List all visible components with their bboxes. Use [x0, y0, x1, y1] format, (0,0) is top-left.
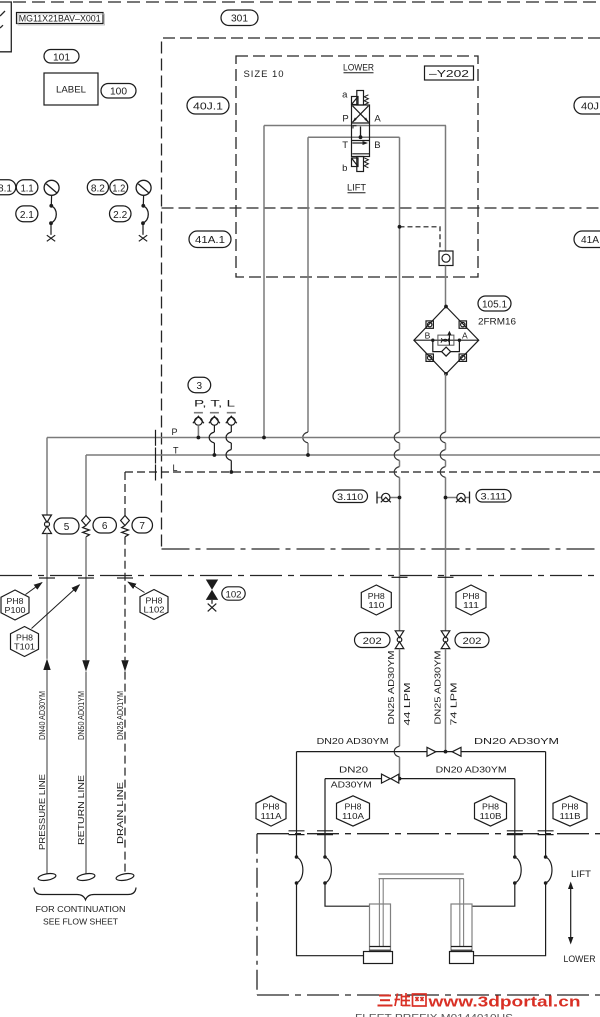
svg-text:1.1: 1.1	[21, 183, 34, 194]
double ticks 110B	[507, 831, 523, 835]
svg-text:PRESSURE LINE: PRESSURE LINE	[37, 774, 47, 850]
svg-text:a: a	[342, 90, 348, 101]
svg-text:301: 301	[231, 14, 248, 25]
machine boundary left vertical	[256, 834, 258, 995]
corner symbol box (cut off at left edge)	[0, 2, 11, 52]
svg-text:FLEET PREFIX M0144010US: FLEET PREFIX M0144010US	[355, 1012, 513, 1017]
svg-text:DN25 AD30YM: DN25 AD30YM	[432, 651, 442, 725]
crossing tick L	[117, 577, 133, 579]
LIFT label	[347, 183, 366, 194]
wire T top horizontal	[308, 136, 400, 138]
pipe end ellipse pressure	[38, 872, 57, 881]
svg-text:40J: 40J	[581, 101, 599, 112]
pipe 110A to left cylinder rod side	[325, 883, 370, 906]
LOWER label	[343, 63, 374, 74]
svg-text:41A: 41A	[581, 235, 599, 246]
line 110B vertical	[514, 779, 516, 857]
wire B hops over P T L	[394, 432, 399, 478]
drain line lower dashed	[124, 672, 126, 874]
coupling T	[209, 413, 220, 457]
svg-text:2.2: 2.2	[113, 210, 127, 221]
svg-text:44 LPM: 44 LPM	[402, 683, 412, 726]
oval 2.1	[16, 206, 38, 222]
svg-text:DN20 AD30YM: DN20 AD30YM	[474, 736, 559, 746]
svg-text:101: 101	[53, 52, 70, 63]
svg-text:DN25 AD01YM: DN25 AD01YM	[115, 691, 125, 740]
machine boundary bottom dash-dot	[257, 994, 600, 996]
junction dot wire P	[262, 436, 266, 440]
right cylinder piston	[451, 947, 472, 951]
svg-text:b: b	[342, 163, 347, 174]
svg-text:P100: P100	[5, 605, 26, 615]
oval 5	[54, 518, 79, 534]
valve body -Y202	[352, 105, 370, 157]
drain line below valve 7 dashed	[124, 537, 126, 660]
mid dashed line	[162, 207, 600, 209]
LABEL box	[44, 73, 98, 105]
hexagon PH8 110	[361, 585, 391, 615]
P line corner vertical	[46, 438, 48, 515]
svg-text:40J.1: 40J.1	[193, 101, 224, 112]
svg-text:B: B	[425, 331, 431, 341]
oval 1.1	[16, 180, 38, 195]
oval 2.2	[110, 206, 132, 222]
valve lower cell arrows	[352, 141, 369, 154]
svg-text:74 LPM: 74 LPM	[448, 683, 458, 726]
svg-text:L: L	[173, 463, 178, 473]
right cylinder base cap	[450, 952, 474, 964]
callout arrow T101	[32, 585, 80, 629]
test point 3.111	[444, 492, 470, 504]
double ticks 111B	[538, 831, 554, 835]
line 111A vertical	[296, 752, 298, 857]
solenoid tag -Y202	[425, 66, 474, 80]
svg-text:P: P	[342, 113, 348, 124]
boundary tick on P	[155, 430, 157, 446]
wire A lower segment	[445, 649, 447, 752]
oval 41A (clipped right)	[574, 231, 600, 248]
outer enclosure bottom dash-dot	[162, 548, 600, 550]
watermark chinese char 3	[413, 994, 427, 1006]
svg-text:AD30YM: AD30YM	[331, 779, 372, 789]
hexagon PH8 111B	[553, 796, 587, 826]
left cylinder rod	[379, 879, 383, 947]
svg-text:6: 6	[102, 521, 108, 532]
oval 3.110	[333, 490, 368, 503]
spring b (bottom right)	[364, 158, 368, 168]
svg-text:DN40 AD30YM: DN40 AD30YM	[37, 691, 47, 740]
svg-text:3: 3	[197, 381, 203, 392]
oval 8.1 (clipped)	[0, 180, 16, 195]
valve center cell line and dot	[353, 126, 362, 139]
hexagon PH8 T101	[11, 627, 39, 657]
crossing tick T	[78, 577, 94, 579]
upper branch cones	[427, 747, 461, 756]
wire B lower segment	[399, 649, 401, 747]
gauge circle 2	[136, 180, 151, 195]
pipe 110B to right cylinder rod side	[472, 883, 515, 906]
callout arrow P100	[26, 583, 43, 595]
svg-text:41A.1: 41A.1	[195, 235, 225, 246]
double ticks 110A	[317, 831, 333, 835]
wire T to T-line	[307, 443, 309, 455]
oval 40J (clipped right)	[574, 97, 600, 114]
left cylinder piston	[370, 947, 391, 951]
oval 102	[222, 587, 245, 600]
svg-text:T101: T101	[14, 642, 35, 652]
wire B to lower branch	[399, 757, 401, 779]
upper branch line 111	[297, 751, 546, 753]
svg-text:SIZE 10: SIZE 10	[244, 69, 284, 80]
svg-text:3.110: 3.110	[337, 492, 363, 502]
oval 1.2	[110, 180, 128, 195]
oval 105.1	[478, 296, 511, 311]
rod header bar	[379, 874, 464, 879]
flow arrow return line down	[82, 660, 89, 671]
inner dashed valve box SIZE 10	[236, 56, 478, 277]
gauge circle 1	[44, 180, 59, 195]
flow arrow pressure line up	[43, 659, 50, 670]
L line corner vertical dashed	[124, 472, 126, 516]
pipe 111B to right cylinder base	[474, 883, 546, 956]
test point 3.110	[377, 492, 401, 504]
svg-text:110: 110	[368, 600, 384, 610]
oval 41A.1	[189, 231, 231, 248]
svg-text:1.2: 1.2	[112, 183, 125, 194]
top dashed line	[13, 1, 600, 3]
wire P top horizontal	[264, 125, 446, 127]
double ticks 111A	[289, 831, 305, 835]
svg-text:LOWER: LOWER	[343, 63, 374, 74]
continuation brace	[34, 888, 136, 900]
svg-text:SEE FLOW SHEET: SEE FLOW SHEET	[43, 917, 118, 927]
flow arrow drain line down	[121, 660, 128, 671]
switch contact 1	[47, 195, 56, 241]
flow regulator 105.1 diamond	[414, 307, 479, 374]
lower branch line 110	[325, 778, 515, 780]
svg-text:8.1: 8.1	[0, 183, 12, 194]
line 110A vertical	[324, 779, 326, 857]
svg-text:–Y202: –Y202	[429, 69, 470, 80]
spring a (top right)	[364, 95, 368, 105]
compensator square with circle	[439, 251, 453, 266]
machine boundary dash-dot	[257, 833, 600, 835]
svg-text:DN20 AD30YM: DN20 AD30YM	[317, 736, 389, 746]
return line below valve 6	[85, 537, 87, 660]
svg-text:P, T, L: P, T, L	[194, 399, 235, 409]
hose 110B	[513, 855, 521, 885]
pipe end ellipse drain	[116, 872, 135, 881]
shutoff valve 5	[43, 515, 52, 534]
svg-text:100: 100	[110, 87, 127, 98]
diamond junction dots	[444, 305, 448, 309]
svg-text:DRAIN LINE: DRAIN LINE	[115, 782, 125, 844]
hexagon PH8 L102	[140, 590, 168, 620]
oval 101	[44, 50, 79, 64]
oval 8.2	[87, 180, 108, 195]
svg-text:7: 7	[139, 521, 145, 532]
station boundary dash-dot	[0, 575, 600, 577]
svg-text:LIFT: LIFT	[571, 869, 592, 879]
callout arrow L102	[128, 582, 145, 593]
right cylinder body	[451, 904, 472, 952]
hop wire B over upper branch	[394, 746, 399, 757]
watermark chinese char 1	[378, 996, 393, 1006]
svg-text:3.111: 3.111	[481, 492, 507, 502]
svg-text:110B: 110B	[480, 811, 503, 821]
pressure line below valve 5	[46, 534, 48, 659]
wire P left vertical	[263, 126, 265, 438]
svg-text:T: T	[342, 140, 348, 151]
svg-text:B: B	[374, 140, 380, 151]
return line lower	[85, 672, 87, 874]
L line dashed	[125, 471, 600, 473]
boundary tick on L	[155, 465, 157, 481]
svg-text:2FRM16: 2FRM16	[478, 317, 516, 328]
shutoff valve 202 right	[441, 631, 450, 649]
svg-text:DN50 AD01YM: DN50 AD01YM	[76, 691, 86, 740]
P T L labels	[172, 427, 180, 473]
svg-text:P: P	[172, 427, 178, 437]
T line corner vertical	[85, 455, 87, 516]
hexagon PH8 110B	[475, 796, 507, 826]
check valve 7	[121, 516, 130, 537]
svg-text:111: 111	[463, 600, 479, 610]
outer dashed enclosure top+left	[162, 38, 600, 549]
crossing tick A-line	[438, 576, 454, 578]
oval 40J.1	[187, 97, 229, 114]
check valve 6	[82, 516, 91, 537]
wire B down to manifold	[399, 478, 401, 631]
wire A right vertical	[445, 126, 447, 252]
oval 202 left	[355, 633, 391, 648]
right cylinder rod	[460, 879, 464, 947]
svg-text:5: 5	[64, 522, 70, 533]
bridge check valves (4 squares)	[426, 321, 467, 362]
wire T left vertical	[307, 137, 309, 432]
junction dot wire T	[306, 453, 310, 457]
hexagon PH8 111A	[256, 796, 286, 826]
crossing tick P	[39, 577, 55, 579]
oval 7	[132, 517, 153, 533]
svg-text:105.1: 105.1	[482, 299, 507, 310]
line 111B vertical	[545, 752, 547, 857]
pipe 111A to left cylinder base	[297, 883, 364, 956]
pipe end ellipse return	[77, 872, 96, 881]
shutoff valve 202 left	[395, 631, 404, 649]
solenoid b (bottom)	[352, 157, 364, 172]
svg-text:8.2: 8.2	[91, 183, 105, 194]
svg-text:DN20 AD30YM: DN20 AD30YM	[436, 765, 507, 775]
pilot dashed line	[398, 225, 440, 251]
svg-text:LABEL: LABEL	[56, 85, 86, 96]
valve port labels	[342, 90, 381, 174]
hose 111B	[544, 855, 552, 885]
crossing tick B-line	[392, 576, 408, 578]
flow control element	[438, 331, 454, 346]
pressure line lower	[46, 670, 48, 874]
oval 6	[93, 517, 116, 533]
svg-text:T: T	[173, 446, 179, 456]
svg-text:MG11X21BAV–X001: MG11X21BAV–X001	[19, 14, 101, 24]
hop wire T over P line	[303, 432, 308, 443]
wire square to diamond	[445, 266, 447, 307]
svg-text:LOWER: LOWER	[564, 954, 596, 964]
wire below diamond	[445, 374, 447, 432]
wire A hops over P T L	[440, 432, 445, 478]
svg-text:DN20: DN20	[339, 765, 368, 775]
svg-text:202: 202	[363, 636, 382, 647]
left cylinder base cap	[364, 952, 393, 964]
coupling L	[226, 413, 237, 474]
svg-text:110A: 110A	[342, 811, 365, 821]
hose 110A	[323, 855, 331, 885]
hexagon PH8 P100	[1, 590, 29, 620]
coupling P	[193, 413, 204, 440]
svg-text:LIFT: LIFT	[347, 183, 366, 194]
svg-text:A: A	[462, 331, 468, 341]
left cylinder body	[370, 904, 391, 952]
svg-text:DN25 AD30YM: DN25 AD30YM	[386, 651, 396, 725]
svg-text:RETURN LINE: RETURN LINE	[76, 775, 86, 845]
lower branch cones	[382, 774, 399, 783]
oval 301	[221, 10, 258, 26]
P line	[47, 437, 600, 439]
shutoff valve 102 (closed)	[206, 580, 218, 612]
svg-text:FOR CONTINUATION: FOR CONTINUATION	[36, 904, 126, 914]
boundary tick on T	[155, 448, 157, 464]
svg-text:2.1: 2.1	[20, 210, 34, 221]
svg-text:202: 202	[463, 636, 482, 647]
svg-text:111A: 111A	[261, 811, 283, 821]
svg-text:www.3dportal.cn: www.3dportal.cn	[427, 995, 580, 1011]
watermark chinese char 2	[395, 993, 411, 1006]
hexagon PH8 110A	[337, 796, 370, 826]
label box MG11X21BAV-X001	[17, 13, 105, 26]
wire B right vertical	[399, 137, 401, 432]
solenoid a (top)	[352, 91, 364, 106]
svg-text:A: A	[374, 114, 381, 125]
hexagon PH8 111	[456, 585, 486, 615]
oval 3.111	[476, 490, 511, 503]
T line	[86, 454, 600, 456]
svg-text:111B: 111B	[560, 811, 582, 821]
svg-text:L102: L102	[144, 605, 165, 615]
oval 202 right	[455, 633, 489, 648]
lift-lower arrow	[568, 882, 573, 945]
oval 100	[101, 84, 136, 99]
bypass check line	[433, 340, 460, 356]
oval 3	[188, 377, 211, 392]
valve cell crossed arrows	[353, 106, 369, 122]
svg-text:102: 102	[226, 589, 242, 599]
wire A down to manifold	[445, 478, 447, 631]
switch contact 2	[139, 195, 148, 241]
hose 111A	[295, 855, 303, 885]
